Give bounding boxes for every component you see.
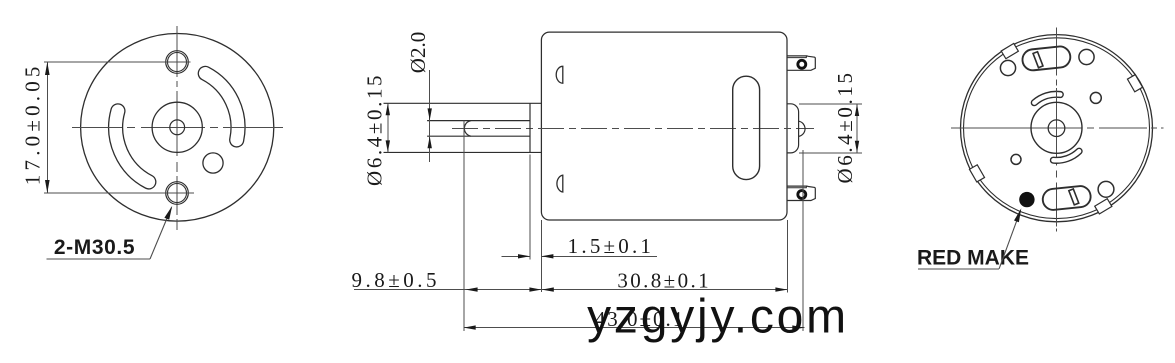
left view: centerline segment over left arc slot (104, 126, 122, 128)
dimension 30.8 right arrow (775, 287, 787, 291)
dimension 43.0 left extension line (from shaft tip) (463, 121, 465, 331)
svg-text:17.0±0.05: 17.0±0.05 (21, 62, 45, 185)
label RED MAKE leader line (999, 211, 1020, 269)
middle view: shaft rounded tip (464, 121, 471, 137)
dimension 30.8 left arrow (542, 287, 554, 291)
middle view: shaft bottom line (427, 135, 530, 137)
middle view: terminal 1 hole (black ring) (798, 60, 806, 68)
svg-text:Ø2.0: Ø2.0 (406, 32, 430, 73)
middle view: terminal tab 2 fold tick (805, 186, 808, 188)
svg-text:Ø6.4±0.15: Ø6.4±0.15 (833, 70, 857, 183)
right view: center boss circle (1031, 102, 1082, 153)
svg-text:1.5±0.1: 1.5±0.1 (568, 234, 654, 258)
right view: terminal blade 2 in slot (1069, 189, 1079, 205)
dimension 9.8 line (extends under text) (354, 289, 541, 291)
left view: top hole crosshair / extension line (44, 61, 191, 63)
svg-text:30.8±0.1: 30.8±0.1 (617, 269, 711, 293)
left view: bottom mounting hole M30.5 outer (166, 182, 189, 205)
dimension Ø6.4 left line (387, 103, 389, 152)
right view: inner rim circle (964, 38, 1150, 219)
dimension 30.8 right extension line (787, 220, 789, 292)
middle view: right vent stadium slot (733, 76, 760, 179)
svg-text:RED MAKE: RED MAKE (917, 247, 1029, 270)
right view: small hole 1 (1000, 60, 1015, 75)
label 2-M30.5 underline (47, 258, 151, 260)
middle view: terminal tab 2 folded edge line (787, 187, 807, 189)
svg-text:Ø6.4±0.15: Ø6.4±0.15 (363, 73, 387, 186)
svg-text:2-M30.5: 2-M30.5 (54, 236, 135, 259)
left view: shaft hole (170, 120, 185, 135)
left view: bottom hole crosshair / extension line (44, 192, 194, 194)
left view: top mounting hole M30.5 outer (166, 51, 189, 74)
middle view: front bushing face (529, 103, 531, 152)
right view: crimp tab 3 (969, 165, 984, 182)
right view: terminal slot 2 (stadium) (1042, 185, 1092, 211)
middle view: horizontal centerline (452, 128, 814, 130)
dimension 1.5 left line (502, 255, 531, 257)
middle view: rear shaft bump (799, 121, 805, 136)
left view: small hole lower-right (203, 153, 223, 173)
right view: small hole 3 (1090, 92, 1101, 103)
right view: small hole 2 (1079, 49, 1094, 64)
middle view: front bushing bottom line / Ø6.4 extension (384, 151, 542, 153)
right view: crimp tab 2 (1127, 75, 1142, 92)
dimension 43.0 right extension line (from rear bump) (802, 150, 804, 331)
middle view: terminal 2 hole (black ring) (798, 191, 806, 199)
dimension 43.0 line (464, 327, 805, 329)
left view: vertical centerline (176, 26, 178, 230)
middle view: left vent slot 2 (557, 175, 563, 192)
dimension Ø2.0 leader line (429, 70, 431, 162)
left view: upper-right vent arc slot (205, 73, 238, 139)
right view: outer circle (961, 35, 1153, 222)
dimension 1.5 extension line from bushing face (529, 155, 531, 260)
middle view: left vent slot 1 (556, 66, 563, 83)
right view: terminal blade 1 in slot (1033, 52, 1043, 68)
left view: horizontal centerline (72, 126, 283, 128)
left view: bottom mounting hole inner (168, 184, 187, 203)
dimension 1.5 extension line from body face (540, 220, 542, 292)
middle view: front bushing top line / Ø6.4 extension (384, 102, 542, 104)
dimension 30.8 line (542, 289, 788, 291)
label 2-M30.5 leader arrow (164, 206, 172, 220)
right view: small hole 5 (1098, 181, 1114, 197)
middle view: terminal tab 1 outline (787, 56, 815, 70)
left view: left vent arc slot (116, 111, 149, 182)
dimension Ø6.4 right line (856, 104, 858, 153)
label 2-M30.5 leader line (150, 208, 172, 260)
dimension Ø6.4 left bottom arrow (386, 140, 390, 152)
dimension 1.5 left arrow (518, 254, 530, 258)
right view: shaft end circle (1048, 120, 1065, 137)
dimension Ø2.0 upper arrow (428, 108, 432, 120)
dimension 9.8 right arrow (529, 287, 541, 291)
right view: upper arc slot around boss (1034, 94, 1060, 102)
left view: top mounting hole inner (168, 53, 187, 72)
dimension 43.0 left arrow (464, 325, 476, 329)
middle view: terminal tab 1 fold tick (805, 56, 808, 58)
middle view: terminal tab 1 folded edge line (787, 57, 807, 59)
right view: terminal slot 1 (stadium) (1021, 45, 1071, 71)
middle view: shaft top line (427, 120, 530, 122)
right view: small hole 4 (1011, 154, 1021, 164)
dimension 17.0 line (46, 62, 48, 193)
svg-text:yzgyjy.com: yzgyjy.com (587, 291, 849, 344)
dimension 17.0 top arrow (45, 62, 50, 75)
middle view: rear bearing boss (787, 104, 799, 153)
right view: lower arc slot around boss (1053, 151, 1079, 160)
dimension 1.5 right line (541, 255, 657, 257)
label RED MAKE underline (918, 268, 999, 270)
dimension Ø6.4 right top extension line (799, 103, 862, 105)
right view: horizontal centerline (951, 127, 1164, 129)
right view: vertical centerline (1056, 27, 1058, 231)
dimension Ø6.4 right bottom arrow (855, 141, 859, 153)
svg-text:9.8±0.5: 9.8±0.5 (352, 268, 441, 292)
left view: centerline segment over right arc slot (228, 126, 250, 128)
dimension Ø6.4 left top arrow (386, 103, 390, 115)
label RED MAKE leader arrow (1014, 208, 1021, 222)
dimension 17.0 bottom arrow (45, 180, 50, 193)
middle view: terminal tab 2 outline (787, 186, 815, 200)
dimension 9.8 left arrow (466, 287, 478, 291)
dimension Ø6.4 right bottom extension line (799, 152, 862, 154)
middle view: motor body (541, 32, 787, 220)
right view: crimp tab 4 (1095, 199, 1112, 214)
right view: centerline segment over upper arc slot (1056, 88, 1058, 99)
left view: center boss circle (152, 102, 202, 152)
dimension Ø6.4 right top arrow (855, 104, 859, 116)
dimension Ø2.0 lower arrow (428, 136, 432, 148)
dimension 1.5 right arrow (541, 254, 553, 258)
dimension 43.0 right arrow (792, 325, 804, 329)
right view: red mark dot (1019, 192, 1034, 207)
left view: end-cap outer circle (81, 34, 274, 222)
right view: crimp tab 1 (1001, 43, 1018, 58)
